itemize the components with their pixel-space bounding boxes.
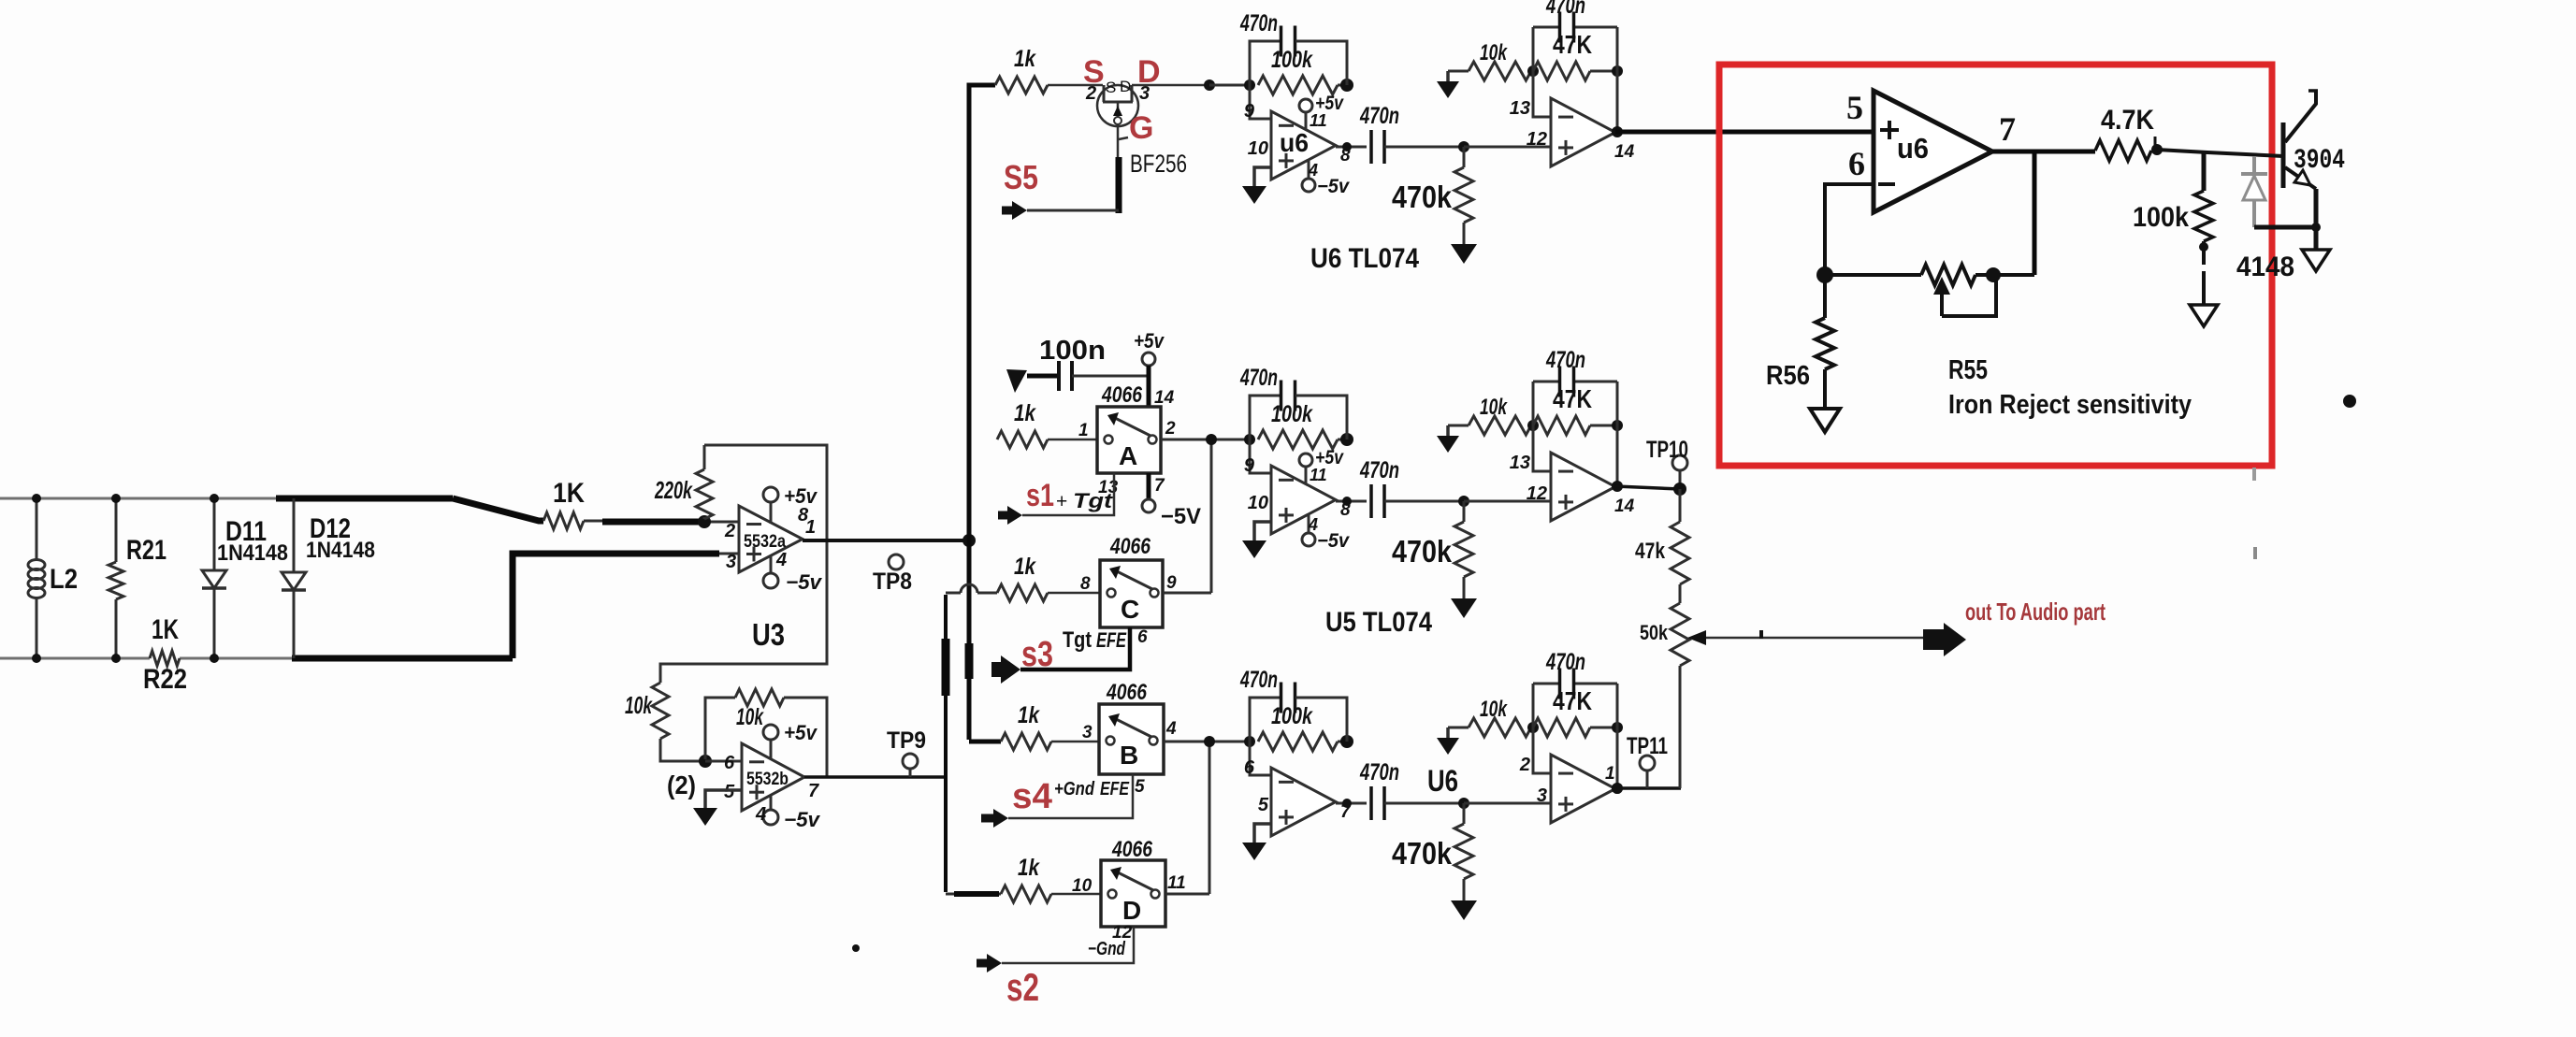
label pin out 2 top row xyxy=(1614,142,1635,162)
capacitor 470n feedback top row xyxy=(1250,26,1347,86)
svg-text:7: 7 xyxy=(808,781,819,801)
ground R56 open xyxy=(1810,409,1840,432)
svg-text:4066: 4066 xyxy=(1111,837,1152,862)
svg-text:10k: 10k xyxy=(1480,40,1508,65)
svg-text:A: A xyxy=(1119,441,1137,470)
resistor 100k feedback row A xyxy=(1258,430,1353,449)
svg-text:4: 4 xyxy=(755,804,766,825)
svg-text:1K: 1K xyxy=(152,614,179,645)
supply +5v for 4066 xyxy=(1134,329,1165,407)
svg-text:6: 6 xyxy=(1244,757,1255,778)
svg-text:10k: 10k xyxy=(625,691,653,719)
svg-text:6: 6 xyxy=(724,753,735,773)
label pin3 B xyxy=(1082,723,1093,742)
wire top rail from coil xyxy=(0,497,453,500)
op-amp U6 iron reject xyxy=(1874,91,1992,212)
R55 wiper bracket xyxy=(1942,277,1996,316)
wire to 1K input resistor xyxy=(453,498,543,521)
wire inverting stem row B xyxy=(1533,727,1551,773)
label 470k row B xyxy=(1392,836,1453,871)
svg-text:+5v: +5v xyxy=(784,721,818,744)
supply +5v row A xyxy=(1299,447,1344,484)
capacitor 470n feedback 2 top row xyxy=(1533,12,1617,72)
svg-text:D: D xyxy=(1120,78,1131,95)
svg-text:12: 12 xyxy=(1527,483,1547,504)
label pin out row A xyxy=(1340,500,1351,520)
resistor 47K feedback row B xyxy=(1527,718,1623,737)
svg-text:S: S xyxy=(1106,79,1116,96)
wire bottom rail xyxy=(0,657,513,660)
label pin minus 2 top row xyxy=(1510,98,1530,119)
supply +5v top row xyxy=(1299,93,1344,130)
50k wiper arrow xyxy=(1687,630,1925,645)
label s2 xyxy=(1006,965,1039,1009)
test point TP8 xyxy=(873,555,912,595)
svg-text:Tgt: Tgt xyxy=(1073,489,1114,512)
wire to second stage row B xyxy=(1464,802,1551,805)
label pin out 2 row B xyxy=(1605,764,1615,784)
label S red xyxy=(1083,54,1105,90)
out to audio block arrow xyxy=(1923,623,1966,656)
arrow at 100n xyxy=(1006,369,1027,393)
svg-text:4066: 4066 xyxy=(1109,534,1151,559)
label pin4 B xyxy=(1165,719,1177,739)
label 470k row A xyxy=(1392,534,1453,569)
svg-text:1K: 1K xyxy=(553,478,585,509)
wire C row with hop over bus xyxy=(946,584,997,593)
svg-text:Iron Reject sensitivity: Iron Reject sensitivity xyxy=(1948,390,2192,420)
svg-text:1k: 1k xyxy=(1018,855,1040,881)
analog switch C 4066 xyxy=(1100,560,1163,627)
label pin out top row xyxy=(1340,146,1351,166)
wire feedback to output row B xyxy=(1612,727,1623,794)
label pin plus row A xyxy=(1248,493,1268,513)
label +Tgt xyxy=(1056,489,1114,512)
label 10k left xyxy=(625,691,653,719)
resistor 470k to ground row A xyxy=(1451,496,1477,618)
node stage input row B xyxy=(1244,736,1255,747)
svg-text:100k: 100k xyxy=(1271,47,1313,73)
op-amp second stage row A xyxy=(1551,453,1615,521)
wire output / coupling cap 470n row B xyxy=(1336,786,1464,820)
potentiometer 50k xyxy=(1671,603,1689,788)
svg-text:R55: R55 xyxy=(1948,355,1988,385)
svg-text:8: 8 xyxy=(1080,574,1091,594)
svg-text:1: 1 xyxy=(1078,421,1089,440)
svg-text:U5 TL074: U5 TL074 xyxy=(1325,607,1432,638)
svg-text:11: 11 xyxy=(1167,873,1186,893)
svg-text:47k: 47k xyxy=(1635,539,1666,564)
resistor 10k to ground row B xyxy=(1437,718,1531,755)
diode 4148 xyxy=(2241,156,2267,227)
svg-text:470n: 470n xyxy=(1545,347,1585,373)
label pin5 xyxy=(724,782,735,802)
svg-text:U6 TL074: U6 TL074 xyxy=(1310,243,1419,274)
svg-text:10k: 10k xyxy=(1480,395,1508,420)
svg-text:R22: R22 xyxy=(143,664,187,695)
label 4066 D xyxy=(1111,837,1152,862)
svg-text:3: 3 xyxy=(1139,83,1150,104)
label 470k top row xyxy=(1392,180,1453,214)
JFET BF256 xyxy=(1097,85,1138,157)
label s1 xyxy=(1026,478,1054,513)
wire C output riser xyxy=(1163,439,1211,593)
wire U3b feedback loop xyxy=(705,698,827,777)
wire pot to riser xyxy=(1993,273,2034,277)
label R21 xyxy=(126,535,166,566)
svg-text:4066: 4066 xyxy=(1106,680,1147,705)
op-amp second stage top row xyxy=(1551,98,1615,166)
U3b +5v pin xyxy=(763,721,818,759)
label 220k xyxy=(654,476,693,504)
label +Gnd EFE xyxy=(1054,779,1130,799)
wire JFET drain to U6a xyxy=(1132,79,1250,91)
label D12 1N4148 xyxy=(306,538,375,563)
svg-text:1N4148: 1N4148 xyxy=(306,538,375,563)
svg-text:out To Audio part: out To Audio part xyxy=(1965,598,2106,626)
label pin3 jfet xyxy=(1139,83,1150,104)
label pin6 xyxy=(724,753,735,773)
U3b -5v pin4 xyxy=(755,795,821,831)
label 1K series xyxy=(553,478,585,509)
wire non-inverting ground row A xyxy=(1242,522,1271,558)
node stage input top row xyxy=(1244,79,1255,91)
label pin10 D xyxy=(1072,876,1093,896)
svg-text:1: 1 xyxy=(805,517,816,538)
label 470n feedback top row xyxy=(1239,10,1278,36)
svg-text:100k: 100k xyxy=(1271,703,1313,729)
resistor 470k to ground top row xyxy=(1451,141,1477,264)
svg-text:+: + xyxy=(1056,491,1067,512)
label 10k feedback xyxy=(736,704,764,730)
svg-text:−5v: −5v xyxy=(1317,530,1350,552)
svg-text:TP9: TP9 xyxy=(887,727,926,754)
wire emitter to ground xyxy=(2254,189,2321,250)
svg-text:TP8: TP8 xyxy=(873,569,912,595)
resistor 1k top row xyxy=(995,77,1103,94)
wire top output to red box xyxy=(1615,130,1874,135)
diode D12 1N4148 xyxy=(282,498,306,658)
U3a -5v pin4 xyxy=(763,550,823,594)
wire inverting input row B xyxy=(1250,742,1271,775)
label u6 first stage top row xyxy=(1280,128,1309,157)
svg-text:12: 12 xyxy=(1527,129,1547,150)
label 1k A xyxy=(1014,400,1036,426)
label pin1 jfet xyxy=(1119,137,1128,139)
resistor 47K feedback top row xyxy=(1527,62,1623,80)
svg-text:u6: u6 xyxy=(1897,132,1929,165)
transistor Q1 3904 xyxy=(2283,91,2318,189)
node U3b inverting input xyxy=(699,755,712,768)
svg-text:10k: 10k xyxy=(1480,697,1508,722)
S5 input arrow xyxy=(1002,201,1119,220)
svg-text:2: 2 xyxy=(1165,419,1176,439)
label pin minus 2 row B xyxy=(1519,755,1530,775)
label 4.7K xyxy=(2101,105,2154,136)
resistor 470k to ground row B xyxy=(1451,798,1477,920)
resistor 100k pullup xyxy=(2194,153,2213,305)
capacitor 100n xyxy=(1027,361,1149,391)
capacitor 470n feedback 2 row B xyxy=(1533,669,1617,728)
svg-text:5532a: 5532a xyxy=(744,532,786,552)
label pin plus 2 row A xyxy=(1527,483,1547,504)
svg-text:EFE: EFE xyxy=(1096,628,1127,652)
label 47K row A xyxy=(1553,384,1592,413)
stray dot right xyxy=(2343,395,2356,408)
label 47K top row xyxy=(1553,30,1592,59)
wire pin6 loop xyxy=(1825,184,1874,273)
wire U3b input xyxy=(705,760,742,763)
svg-text:G: G xyxy=(1129,110,1153,146)
label pin plus 2 row B xyxy=(1537,785,1547,806)
label pin8 C xyxy=(1080,574,1091,594)
svg-text:TP10: TP10 xyxy=(1646,437,1688,463)
svg-text:14: 14 xyxy=(1154,388,1175,408)
test point TP11 xyxy=(1627,733,1668,788)
svg-text:1N4148: 1N4148 xyxy=(217,540,288,566)
label s4 xyxy=(1012,777,1052,816)
svg-text:1k: 1k xyxy=(1018,702,1040,728)
wire inverting input top row xyxy=(1250,85,1271,119)
svg-text:TP11: TP11 xyxy=(1627,733,1668,759)
svg-text:4066: 4066 xyxy=(1101,382,1142,408)
label s3 xyxy=(1021,635,1053,674)
label D12 xyxy=(310,513,351,544)
svg-text:−5v: −5v xyxy=(1317,176,1350,197)
label 470n coupling top row xyxy=(1359,103,1399,129)
wire output riser xyxy=(2033,151,2037,275)
ground emitter open xyxy=(2302,250,2330,271)
wire inverting input row A xyxy=(1250,439,1271,473)
resistor 47k xyxy=(1671,489,1689,603)
s2 control arrow xyxy=(977,927,1134,972)
svg-text:470n: 470n xyxy=(1359,103,1399,129)
label 4066 A xyxy=(1101,382,1142,408)
wire D output riser xyxy=(1165,742,1209,894)
svg-text:470n: 470n xyxy=(1239,667,1278,693)
wire A output to TP10 xyxy=(1615,486,1680,489)
svg-text:s3: s3 xyxy=(1021,635,1053,674)
label 470n feedback 2 row B xyxy=(1545,649,1585,675)
wire u6 output xyxy=(1992,150,2095,154)
label 100n xyxy=(1039,336,1106,366)
svg-text:6: 6 xyxy=(1848,145,1865,182)
svg-text:R21: R21 xyxy=(126,535,166,566)
wire bus to 1k B xyxy=(969,740,1001,744)
label D small xyxy=(1120,78,1131,95)
label R22 xyxy=(143,664,187,695)
svg-text:13: 13 xyxy=(1510,453,1530,473)
label U5 TL074 xyxy=(1325,607,1432,638)
resistor 1K series xyxy=(543,512,584,529)
stray dot bottom xyxy=(852,944,860,952)
svg-text:L2: L2 xyxy=(50,564,78,595)
diode D11 1N4148 xyxy=(202,494,226,663)
label pin3 xyxy=(726,552,736,572)
s3 control arrow xyxy=(991,627,1130,684)
wire non-inverting ground top row xyxy=(1242,167,1271,204)
label pin2 xyxy=(724,521,735,541)
resistor 10k to ground row A xyxy=(1437,416,1531,453)
label 3904 xyxy=(2294,145,2345,177)
svg-text:470k: 470k xyxy=(1392,180,1453,214)
wire node to pot xyxy=(1825,273,1921,277)
label Iron Reject sensitivity xyxy=(1948,390,2192,420)
label 50k xyxy=(1640,621,1669,644)
label (2) xyxy=(667,771,696,799)
wire U3a output to bus xyxy=(803,534,976,547)
red highlight box xyxy=(1719,65,2272,466)
label R56 xyxy=(1766,361,1810,391)
label 100k top row xyxy=(1271,47,1313,73)
op-amp first stage row A xyxy=(1271,466,1336,534)
svg-text:s4: s4 xyxy=(1012,777,1052,816)
svg-text:100n: 100n xyxy=(1039,336,1106,366)
label pin minus row B xyxy=(1244,757,1255,778)
label 47K row B xyxy=(1553,686,1592,715)
svg-text:7: 7 xyxy=(1154,476,1165,496)
label pin5 B xyxy=(1135,777,1145,797)
wire feedback to output row A xyxy=(1612,425,1623,492)
svg-text:9: 9 xyxy=(1244,455,1255,476)
label 100k row B xyxy=(1271,703,1313,729)
label pin5 big xyxy=(1846,89,1863,126)
wire inverting stem row A xyxy=(1533,425,1551,471)
node stage input row A xyxy=(1244,434,1255,445)
resistor R21 xyxy=(109,494,123,663)
label pin11 D xyxy=(1167,873,1186,893)
test point TP9 xyxy=(887,727,926,777)
svg-text:2: 2 xyxy=(1519,755,1530,775)
label 1k C xyxy=(1014,554,1036,580)
label 1k B xyxy=(1018,702,1040,728)
label pin7 big xyxy=(1999,110,2016,148)
analog switch D 4066 xyxy=(1101,860,1165,927)
svg-text:13: 13 xyxy=(1510,98,1530,119)
resistor 1k row B xyxy=(1001,733,1099,750)
label pin plus top row xyxy=(1248,138,1268,159)
bus U3b output vertical xyxy=(944,595,948,892)
label pin6 big xyxy=(1848,145,1865,182)
label pin1 A xyxy=(1078,421,1089,440)
wire to U3a non-inverting input xyxy=(513,554,739,658)
label BF256 xyxy=(1130,150,1187,178)
svg-text:1: 1 xyxy=(1605,764,1615,784)
svg-text:u6: u6 xyxy=(1280,128,1309,157)
label pin out 2 row A xyxy=(1614,497,1635,516)
label 100k row A xyxy=(1271,401,1313,427)
svg-text:470n: 470n xyxy=(1359,457,1399,483)
resistor 4.7K xyxy=(2095,137,2163,161)
wire JFET gate thick xyxy=(1116,157,1122,213)
U3a +5v pin8 xyxy=(763,484,818,526)
label D11 xyxy=(225,516,267,547)
resistor 10k to U3b xyxy=(652,683,703,761)
resistor 100k feedback top row xyxy=(1258,76,1353,94)
svg-text:5: 5 xyxy=(1846,89,1863,126)
label pin13 A xyxy=(1098,478,1119,497)
svg-text:5: 5 xyxy=(1135,777,1145,797)
svg-text:s1: s1 xyxy=(1026,478,1054,513)
label pin2 A xyxy=(1165,419,1176,439)
svg-text:EFE: EFE xyxy=(1100,779,1130,799)
label 4066 B xyxy=(1106,680,1147,705)
op-amp first stage row B xyxy=(1271,768,1336,836)
label 1k top xyxy=(1014,46,1036,72)
label 10k row A xyxy=(1480,395,1508,420)
label D11 1N4148 xyxy=(217,540,288,566)
svg-text:1k: 1k xyxy=(1014,400,1036,426)
label 1k D xyxy=(1018,855,1040,881)
resistor 100k feedback row B xyxy=(1258,732,1353,751)
svg-text:C: C xyxy=(1121,595,1139,624)
resistor R56 xyxy=(1816,275,1834,409)
node R56 top xyxy=(1816,266,1833,283)
label 470n feedback 2 top row xyxy=(1545,0,1585,19)
label L2 xyxy=(50,564,78,595)
label 100k pullup xyxy=(2133,202,2189,233)
label pin2 jfet xyxy=(1085,83,1096,104)
label 4148 xyxy=(2236,252,2294,282)
wire to second stage top row xyxy=(1464,146,1551,149)
svg-text:100k: 100k xyxy=(2133,202,2189,233)
wire U3b output xyxy=(804,775,946,779)
label 47k xyxy=(1635,539,1666,564)
label pin minus 2 row A xyxy=(1510,453,1530,473)
svg-text:100k: 100k xyxy=(1271,401,1313,427)
label pin plus row B xyxy=(1258,795,1269,815)
resistor 10k feedback U3b xyxy=(735,689,784,706)
svg-text:s2: s2 xyxy=(1006,965,1039,1009)
svg-text:3: 3 xyxy=(1537,785,1547,806)
svg-text:−5V: −5V xyxy=(1161,504,1201,529)
label S small xyxy=(1106,79,1116,96)
capacitor 470n feedback row B xyxy=(1250,683,1347,742)
label pin12 D xyxy=(1112,923,1133,943)
op-amp first stage top row xyxy=(1271,111,1336,180)
bus U3a output vertical xyxy=(969,85,995,740)
svg-text:3904: 3904 xyxy=(2294,145,2345,177)
label pin9 C xyxy=(1166,573,1177,593)
wire 1K to U3a inverting input xyxy=(584,515,739,528)
svg-text:Tgt: Tgt xyxy=(1063,627,1092,653)
svg-text:4148: 4148 xyxy=(2236,252,2294,282)
test point TP10 xyxy=(1646,437,1688,489)
svg-text:220k: 220k xyxy=(654,476,693,504)
s1 control arrow xyxy=(998,473,1114,525)
svg-text:R56: R56 xyxy=(1766,361,1810,391)
svg-text:470k: 470k xyxy=(1392,534,1453,569)
svg-text:470n: 470n xyxy=(1545,649,1585,675)
svg-text:+Gnd: +Gnd xyxy=(1054,779,1095,799)
analog switch B 4066 xyxy=(1099,704,1164,774)
label 470n feedback row B xyxy=(1239,667,1278,693)
label Tgt EFE xyxy=(1063,627,1127,653)
potentiometer R55 xyxy=(1921,265,2001,285)
svg-text:+5v: +5v xyxy=(1134,329,1165,353)
svg-text:(2): (2) xyxy=(667,771,696,799)
inductor L2 xyxy=(28,494,45,663)
svg-text:9: 9 xyxy=(1244,101,1255,122)
node TP10 xyxy=(1673,482,1686,496)
label pin minus top row xyxy=(1244,101,1255,122)
resistor 220k feedback xyxy=(696,445,713,519)
s4 control arrow xyxy=(981,774,1133,828)
svg-text:5: 5 xyxy=(1258,795,1269,815)
svg-text:U6: U6 xyxy=(1427,764,1458,798)
label 4066 C xyxy=(1109,534,1151,559)
wire B output to TP11 row xyxy=(1615,786,1681,790)
